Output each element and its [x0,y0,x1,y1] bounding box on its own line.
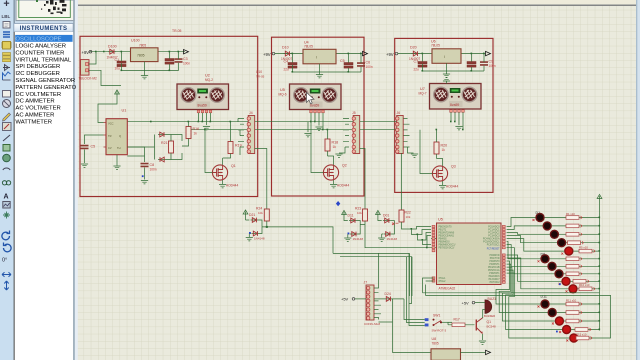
terminal OUT arrow ch2 [363,51,368,55]
terminal OUT arrow U8 [486,350,491,354]
svg-text:XTAL1: XTAL1 [439,277,447,280]
resistor R9 (LED D9) [573,280,589,284]
wire clamp1 junction to MCU run [262,221,333,253]
resistor R18 ch2 [325,130,338,156]
wire ch2 psu rail [275,53,363,55]
resistor R4 (LED D4) [568,241,584,245]
resistor R13 (LED D13) [566,319,582,323]
MCU U5 (ATmega32) [437,218,502,291]
svg-text:I2C DEBUGGER: I2C DEBUGGER [15,71,60,77]
clamp 2: ground [344,238,351,241]
svg-text:C3: C3 [183,57,188,61]
wire ch1 output down to clamp 1 [255,149,267,210]
left icon toolbar [0,0,14,360]
svg-text:C5: C5 [340,59,345,63]
wire PSU1 main rail [90,51,185,53]
svg-text:DC VOLTMETER: DC VOLTMETER [15,92,61,98]
junction dots PSU1 [95,51,179,71]
svg-text:VCC: VCC [108,122,114,126]
sensor U2 (gas sensor ch1) [177,74,229,113]
resistor R15 (LED D15) [576,336,592,340]
resistor R3 (LED D3) [566,233,582,237]
svg-text:TBLOCK-M2: TBLOCK-M2 [79,77,97,81]
connector J5 (box2 right edge) [335,111,359,157]
wire timer outputs to diode network [127,135,182,160]
voltage regulator U8 [431,337,485,360]
svg-text:J4: J4 [249,111,253,115]
svg-text:PD1/TXD: PD1/TXD [490,258,500,260]
svg-text:CONN-SIL8: CONN-SIL8 [364,322,380,326]
power +5V terminal at BUZ1 [462,301,486,319]
diode D20 [409,46,420,62]
svg-text:PB3/OC0/AIN1: PB3/OC0/AIN1 [439,235,455,238]
LED D6 [541,255,549,263]
LED D2 [543,222,551,230]
LED D13 [555,317,563,325]
svg-text:PC6/TOSC1: PC6/TOSC1 [487,245,500,247]
ground above sensor U7 [443,78,450,84]
wire PSU1 cap drops and ground bus [122,52,179,76]
MCU pin names left [439,227,456,284]
svg-text:R15 x10: R15 x10 [576,332,587,336]
group box 2 (channel 2 enclosure) [272,37,365,196]
svg-text:BUZZER: BUZZER [484,314,495,318]
svg-text:1k: 1k [442,148,446,152]
svg-text:R24: R24 [256,207,262,211]
switch SW1 [425,314,452,333]
svg-text:U1: U1 [122,109,127,113]
resistor R16 ch1 [182,122,199,146]
wire ch3 output down to clamp 3 [401,153,403,210]
svg-text:MQ-6: MQ-6 [279,93,287,97]
resistor R7 (LED D7) [566,265,582,269]
diode D4 [158,157,166,162]
LED pin marks [533,219,569,342]
wire TBLOCK to rail [89,52,122,86]
svg-text:D01: D01 [383,214,389,218]
svg-text:1N4148: 1N4148 [353,237,364,241]
MOSFET Q3 ch3 [420,130,458,189]
ground U1 [113,155,120,170]
diode D24 [374,292,404,301]
power +5V arrow above U1 [98,90,119,123]
wires ch3 psu caps and ground [423,54,485,74]
terminal OUT arrow ch1 [184,50,189,54]
origin marker (blue diamond) [336,201,340,206]
svg-text:SIGNAL GENERATOR: SIGNAL GENERATOR [15,78,75,84]
svg-text:COUNTER TIMER: COUNTER TIMER [15,50,64,56]
ground sensor U2 pin [203,127,210,130]
junction dots bus wires [150,121,464,131]
svg-text:Q1: Q1 [487,320,492,324]
svg-text:78L05: 78L05 [431,44,440,48]
svg-text:I: I [316,56,317,60]
svg-text:R17: R17 [454,318,460,322]
svg-text:C8: C8 [150,163,155,167]
svg-text:R22: R22 [405,211,411,215]
diode D100 [107,45,118,60]
LED D1 [536,214,544,222]
svg-text:AOD444: AOD444 [226,184,238,188]
svg-text:C7: C7 [414,59,419,63]
svg-text:C5: C5 [91,145,96,149]
resistor R14 (LED D14) [575,328,591,332]
junction dots ch3 psu [422,53,485,72]
clamp 3: ground [378,238,385,241]
svg-text:22u: 22u [414,68,420,72]
svg-text:R1 x10: R1 x10 [566,212,575,216]
LED D7 [548,262,556,270]
MCU pin names right [483,226,500,285]
wires sensor U5 pins down [311,113,323,130]
wire main inter-box bus B (y=129.7) [190,129,400,131]
sensor U7 (gas sensor ch3) [419,84,482,113]
connector J6 (box3 left edge) [396,111,419,157]
svg-text:D24: D24 [385,292,391,296]
power +5V terminal at J7 [341,297,366,302]
clamp 3: power +5V [376,211,381,218]
ground PSU1 [141,76,148,79]
svg-text:78L05: 78L05 [304,45,313,49]
LED D8 [555,270,563,278]
resistor R19 ch1 [223,122,242,158]
svg-text:100n: 100n [183,62,190,66]
regulator U4 78L05 [303,41,336,64]
svg-text:TR-05: TR-05 [172,29,182,33]
group box 3 (channel 3 enclosure) [395,38,493,192]
right window edge [636,0,637,360]
power +5V rail arrow (LED array) [597,195,602,202]
svg-text:OSCILLOSCOPE: OSCILLOSCOPE [15,37,61,43]
svg-text:+9V: +9V [82,50,90,55]
svg-text:U5: U5 [280,88,285,92]
svg-text:U10: U10 [256,70,262,74]
svg-text:PD5/OC1A: PD5/OC1A [488,269,500,272]
svg-text:PB4/SS: PB4/SS [439,239,448,241]
junction dots ch2 psu [292,53,362,73]
svg-text:MQ-7: MQ-7 [419,92,427,96]
resistor R6 (LED D6) [566,257,582,261]
ground sensor U5 second [304,122,311,137]
svg-text:AC VOLTMETER: AC VOLTMETER [15,106,60,112]
regulator U6 78L05 [431,40,461,64]
capacitor C8b [467,62,476,68]
svg-text:LOGIC ANALYSER: LOGIC ANALYSER [15,44,66,50]
svg-text:Q3: Q3 [451,165,456,169]
svg-text:ATMEGA32: ATMEGA32 [439,287,456,291]
svg-text:D11: D11 [348,214,354,218]
svg-text:MQ-2: MQ-2 [205,78,213,82]
capacitor C4 [284,59,298,71]
svg-text:D10: D10 [282,46,289,50]
svg-text:U5: U5 [438,218,443,222]
svg-text:PC4/ADC4/SDA: PC4/ADC4/SDA [483,238,500,241]
svg-text:LBL: LBL [2,14,11,19]
svg-text:PC7/RESET: PC7/RESET [487,249,500,251]
svg-text:C9: C9 [489,60,494,64]
svg-text:7805: 7805 [432,342,439,346]
connector J4 (box1 right edge) [238,111,255,155]
resistor R8 (LED D8) [566,272,582,276]
wire clamp3 junction to MCU [402,222,432,245]
wire main inter-box bus A (y=121.7) [127,121,400,123]
svg-text:PD7/OC2: PD7/OC2 [490,282,501,284]
wire down to U8 regulator [379,299,432,353]
clamp 3: diode D02 [382,221,398,242]
instruments header [14,23,73,32]
svg-text:R10 x10: R10 x10 [579,283,590,287]
svg-text:100n: 100n [150,168,157,172]
svg-text:10k: 10k [406,215,411,219]
svg-text:Q2: Q2 [342,164,347,168]
resistor R20 ch3 [434,130,447,159]
clamp 3: unconnected pin marks [392,223,399,226]
ground sensor U5 pin [315,127,322,130]
wire clamp2 junction down right [360,221,437,248]
svg-text:R5 x10: R5 x10 [579,246,588,250]
capacitor C1 [115,58,127,71]
ground sensor U7 pin [455,127,462,130]
svg-text:D100: D100 [108,45,117,49]
svg-text:10k: 10k [258,211,263,215]
LED D4 [558,239,566,247]
ground below Q4 [479,341,486,344]
LED D12 [548,309,556,317]
clamp 1: power +5V [243,210,248,217]
clamp 1: diode D21 [246,213,263,227]
resistor R10 (LED D10) [579,287,595,291]
svg-text:0°: 0° [2,258,7,264]
clamp 2: resistor R23 [355,207,368,222]
capacitor C9 [480,60,496,69]
connector J7 (SIL-8 to MCU) [364,281,381,327]
svg-text:PD4/OC1B: PD4/OC1B [488,267,500,269]
capacitor C8 timer ch1 [130,147,157,184]
object list [15,32,74,360]
svg-text:PB7/SCK/OC2/: PB7/SCK/OC2/ [439,248,455,250]
svg-text:AC AMMETER: AC AMMETER [15,113,54,119]
svg-text:+5V: +5V [462,301,470,306]
mouse cursor [307,93,315,104]
LED D14 [563,326,571,334]
svg-text:PB5/MOSI: PB5/MOSI [439,242,450,244]
clamp 2: blue probe dot [348,233,350,235]
svg-text:U100: U100 [131,39,140,43]
svg-text:BUZ1: BUZ1 [488,297,497,301]
clamp 2: diode D12 [348,227,364,241]
svg-text:VIRTUAL TERMINAL: VIRTUAL TERMINAL [15,57,72,63]
svg-text:PD6/ICP1: PD6/ICP1 [489,273,500,275]
MCU left pin pads [432,225,435,282]
svg-text:J6: J6 [397,111,401,115]
resistor R5 (LED D5) [579,249,595,253]
sensor U5 (gas sensor ch2) [279,84,342,113]
svg-text:PATTERN GENERATO: PATTERN GENERATO [15,85,76,91]
resistor R21 ch1 [161,135,176,160]
clamp 1: ground [246,238,253,241]
clamp 2: diode D11 [344,214,360,228]
svg-text:J5: J5 [352,111,356,115]
resistor R2 (LED D2) [566,224,582,228]
junction dots staircase [411,228,428,248]
clamp 3: resistor R22 [399,210,411,222]
preview window [15,0,78,22]
svg-text:J7: J7 [364,281,368,285]
terminal OUT arrow ch3 [486,51,491,55]
capacitor C5b [340,59,353,68]
clamp 1: diode D22 [249,227,265,241]
resistor R12 (LED D12) [566,311,582,315]
svg-text:R23: R23 [355,207,361,211]
svg-text:BC548: BC548 [487,325,497,329]
MOSFET Q2 ch2 [311,122,349,188]
svg-text:PC2/ADC2: PC2/ADC2 [488,232,500,235]
svg-text:DC AMMETER: DC AMMETER [15,99,54,105]
svg-text:CV: CV [108,146,112,150]
svg-text:U8: U8 [432,337,437,341]
wires J7 pins right stubs [374,253,381,319]
svg-text:PD0/RXD: PD0/RXD [490,255,500,257]
capacitor C5 ch1 timer [81,135,104,167]
ground ch2 psu [316,75,323,78]
capacitor C6 [357,61,373,70]
svg-text:SPI DEBUGGER: SPI DEBUGGER [15,64,60,70]
svg-text:100n: 100n [489,64,496,68]
LED D3 [550,230,558,238]
svg-text:1N4148: 1N4148 [254,237,265,241]
svg-text:7805: 7805 [137,54,145,58]
wires ch2 psu caps and ground [293,54,362,75]
LED D11 [541,300,549,308]
LED D9 [562,277,570,285]
wire ch3 psu rail [398,53,486,55]
regulator U100 7805 [131,39,159,62]
wire bundle into MCU left pins [267,227,412,296]
diode D3 [155,132,167,159]
capacitor C2 [165,59,174,65]
svg-text:SW1: SW1 [433,314,440,318]
svg-text:PB6/MISO/OC1/: PB6/MISO/OC1/ [439,245,456,247]
svg-text:R16: R16 [193,127,200,131]
svg-text:R20: R20 [441,144,448,148]
wire +5V LED rail [599,202,601,331]
svg-text:PC1/ADC1: PC1/ADC1 [488,229,500,232]
svg-text:PC0/ADC0: PC0/ADC0 [488,226,500,229]
timer U1 (555) [104,109,130,157]
group box 1 (channel 1 enclosure) [80,36,258,196]
connector J100 TBLOCK-M2 [79,60,97,81]
junction dot clamp1 [266,226,268,228]
svg-text:+9V: +9V [263,52,271,57]
svg-text:D20: D20 [410,46,417,50]
svg-text:PD3/INT1: PD3/INT1 [489,264,500,266]
svg-text:U2: U2 [205,74,210,78]
clamp 2: power +5V [342,211,347,218]
transistor Q4 (BC548) [476,318,496,341]
svg-text:A: A [4,194,9,201]
buzzer BUZ1 [484,297,496,318]
resistor R17 [448,318,475,327]
svg-text:7805: 7805 [139,44,146,48]
resistor R1 (LED D1) [566,216,582,220]
svg-text:PB0/XCK/T0: PB0/XCK/T0 [439,227,453,229]
ground ch3 psu [443,74,450,77]
svg-text:C4: C4 [284,59,289,63]
LED D15 [570,334,578,342]
clamp 1: resistor R24 [256,207,269,222]
svg-text:D21: D21 [249,213,255,217]
svg-text:100n: 100n [366,65,373,69]
capacitor C7 [414,59,428,71]
wire ch2 output down to clamp 2 [360,149,365,210]
svg-text:TH: TH [117,146,121,150]
svg-text:INSTRUMENTS: INSTRUMENTS [20,26,68,32]
svg-text:PB2/INT2/AIN0: PB2/INT2/AIN0 [439,232,455,235]
clamp 3: diode D01 [378,214,395,223]
resistor R11 (LED D11) [566,302,582,306]
svg-text:+9V: +9V [386,52,394,57]
svg-text:PA6/ADC6: PA6/ADC6 [489,275,501,278]
svg-text:PC5/ADC5/SCL: PC5/ADC5/SCL [483,241,500,244]
svg-text:R11 x10: R11 x10 [566,298,577,302]
svg-text:10k: 10k [357,211,362,215]
svg-text:TR-05: TR-05 [256,75,265,79]
svg-text:R21: R21 [161,141,168,145]
wire MCU aux run to LED rail 2 [423,278,611,338]
svg-text:10u: 10u [115,67,121,71]
svg-text:WATTMETER: WATTMETER [15,119,52,125]
wires sensor U7 pins down [451,112,463,129]
svg-text:1k: 1k [194,132,198,136]
LED D10 [569,285,577,293]
svg-text:+5V: +5V [341,297,349,302]
svg-text:XTAL2: XTAL2 [439,280,447,283]
MCU right pin pads [502,225,505,283]
svg-text:AOD444: AOD444 [446,185,458,189]
clamp 1: blue probe dot [249,232,251,234]
svg-text:1N4148: 1N4148 [387,237,398,241]
svg-text:1k: 1k [333,145,337,149]
LED array wiring [507,218,536,227]
wires sensor U2 pins down [199,113,211,125]
svg-text:Q: Q [119,134,121,138]
svg-text:C6: C6 [366,61,371,65]
svg-text:I: I [444,55,445,59]
svg-text:22u: 22u [284,68,290,72]
svg-text:R18: R18 [332,141,339,145]
LED D5 [565,247,573,255]
MOSFET Q1 ch1 [205,130,238,188]
svg-text:U7: U7 [420,87,425,91]
svg-text:PA7/ADC7: PA7/ADC7 [489,278,501,281]
svg-text:PD2/INT0: PD2/INT0 [489,261,500,263]
svg-text:AOD444: AOD444 [337,184,349,188]
schematic canvas top strip [78,0,637,5]
capacitor C3 [175,57,191,66]
svg-text:PB1/T1: PB1/T1 [439,230,447,232]
svg-text:Q1: Q1 [231,164,236,168]
svg-text:SW-ROT-3: SW-ROT-3 [432,329,447,333]
svg-text:TR: TR [108,134,112,138]
wire bundle verticals to SW1 [404,253,425,325]
wire staircase into MCU left [412,227,438,248]
svg-text:PC3/ADC3: PC3/ADC3 [488,235,500,238]
diode D10 [281,46,292,62]
